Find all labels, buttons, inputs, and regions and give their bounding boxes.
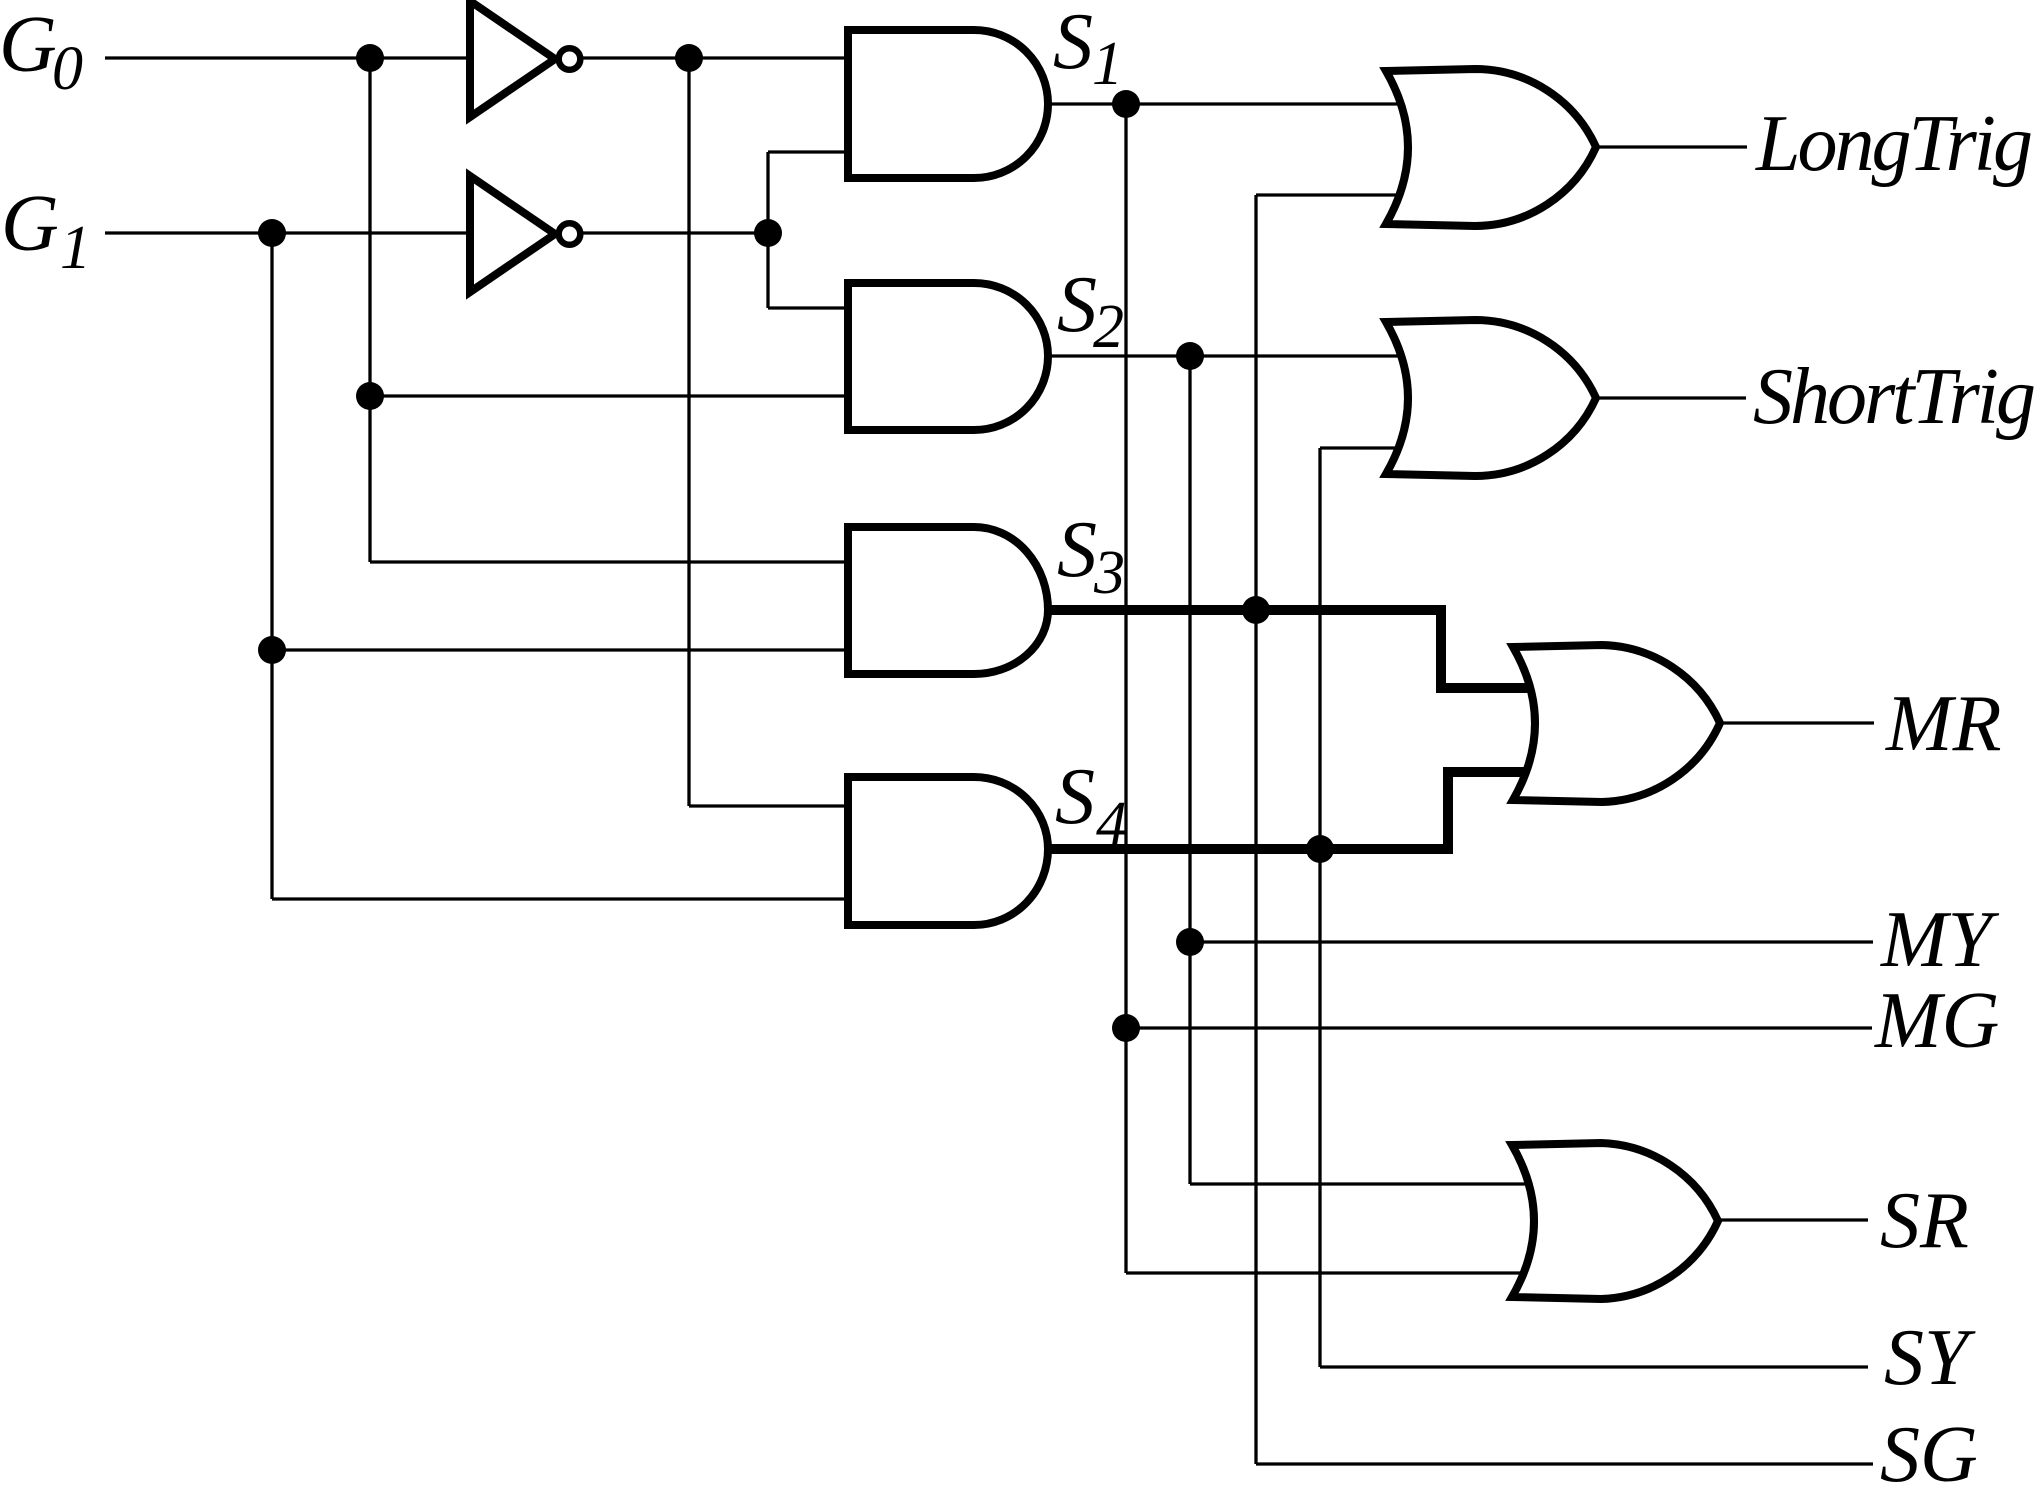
svg-text:S: S xyxy=(1055,753,1095,841)
svg-text:SR: SR xyxy=(1880,1177,1969,1265)
svg-text:3: 3 xyxy=(1093,539,1125,607)
svg-text:S: S xyxy=(1053,0,1093,86)
svg-text:0: 0 xyxy=(52,35,83,103)
svg-text:S: S xyxy=(1057,506,1097,594)
svg-text:MR: MR xyxy=(1885,680,2002,768)
svg-text:4: 4 xyxy=(1096,790,1127,858)
svg-text:SG: SG xyxy=(1880,1411,1978,1495)
svg-text:ShortTrig: ShortTrig xyxy=(1753,353,2036,441)
svg-text:G: G xyxy=(0,1,57,89)
svg-text:S: S xyxy=(1057,261,1097,349)
svg-text:1: 1 xyxy=(1092,30,1123,98)
svg-text:2: 2 xyxy=(1093,293,1124,361)
svg-text:G: G xyxy=(1,180,59,268)
svg-text:1: 1 xyxy=(60,214,91,282)
svg-text:MY: MY xyxy=(1880,896,2000,984)
svg-text:MG: MG xyxy=(1874,977,1999,1065)
svg-text:SY: SY xyxy=(1884,1314,1976,1402)
svg-text:LongTrig: LongTrig xyxy=(1755,100,2033,188)
